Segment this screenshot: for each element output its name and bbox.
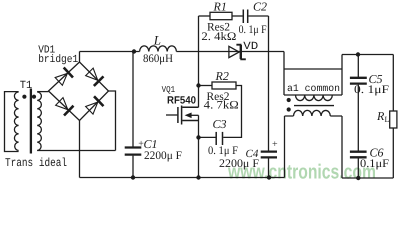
svg-text:Trans ideal: Trans ideal bbox=[5, 156, 67, 170]
svg-text:a1 common: a1 common bbox=[287, 84, 340, 95]
svg-text:0.1μF: 0.1μF bbox=[360, 158, 389, 170]
svg-text:2. 4kΩ: 2. 4kΩ bbox=[201, 31, 236, 43]
svg-text:C3: C3 bbox=[213, 117, 227, 131]
svg-text:RF540: RF540 bbox=[167, 94, 196, 106]
svg-text:2200μ F: 2200μ F bbox=[219, 158, 259, 170]
svg-text:T1: T1 bbox=[20, 80, 33, 92]
svg-text:C1: C1 bbox=[144, 137, 158, 151]
svg-text:R1: R1 bbox=[213, 0, 227, 13]
svg-text:0. 1μ F: 0. 1μ F bbox=[239, 24, 267, 36]
svg-text:L: L bbox=[385, 115, 390, 124]
svg-text:R2: R2 bbox=[215, 69, 229, 83]
svg-text:C2: C2 bbox=[253, 0, 267, 14]
svg-text:0. 1μ F: 0. 1μ F bbox=[208, 145, 238, 157]
svg-text:4. 7kΩ: 4. 7kΩ bbox=[204, 100, 239, 112]
svg-text:+: + bbox=[272, 139, 278, 150]
svg-text:VD: VD bbox=[243, 41, 258, 53]
svg-text:bridge1: bridge1 bbox=[38, 54, 78, 66]
svg-text:0. 1μF: 0. 1μF bbox=[354, 84, 389, 96]
svg-text:2200μ F: 2200μ F bbox=[144, 150, 182, 162]
svg-text:C4: C4 bbox=[246, 148, 259, 160]
svg-text:L: L bbox=[153, 32, 161, 47]
svg-text:860μH: 860μH bbox=[143, 53, 173, 65]
